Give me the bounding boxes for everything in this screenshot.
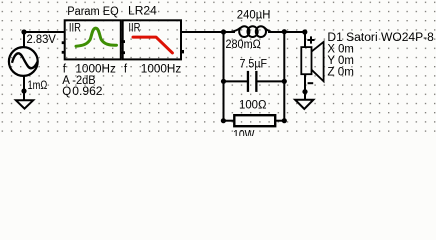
speaker minus sign [308, 82, 314, 84]
svg-text:Z 0m: Z 0m [327, 67, 354, 79]
wire: node D to speaker top [284, 31, 305, 33]
wire: source top to Param EQ input [24, 31, 65, 33]
node H junction dot [221, 118, 226, 123]
svg-text:2.83V: 2.83V [27, 34, 57, 46]
speaker D1 magnet rect [301, 47, 311, 74]
svg-text:100Ω: 100Ω [239, 99, 267, 111]
svg-text:1mΩ: 1mΩ [28, 80, 48, 92]
ground (source) [16, 100, 33, 108]
resistor R1 right wire [275, 120, 284, 122]
node A junction dot at source top [21, 29, 26, 34]
wire: LR24 output to node C [181, 31, 224, 33]
capacitor C1 right wire [258, 80, 285, 82]
svg-text:IIR: IIR [69, 23, 81, 35]
svg-text:7.5µF: 7.5µF [240, 59, 268, 71]
svg-text:1000Hz: 1000Hz [141, 64, 182, 76]
wire: source bottom to ground [23, 76, 25, 100]
grid dots [0, 0, 436, 136]
svg-text:1000Hz: 1000Hz [75, 64, 116, 76]
svg-text:240µH: 240µH [237, 9, 271, 21]
corner junction dot at speaker top [302, 29, 307, 34]
wire: junction down to source circle [23, 31, 25, 47]
resistor R1 body [234, 115, 275, 126]
svg-text:Param EQ: Param EQ [67, 6, 118, 18]
node C junction dot [221, 29, 226, 34]
Param EQ green bell curve [76, 28, 117, 46]
resistor R1 left wire [224, 120, 235, 122]
node F junction dot [282, 79, 287, 84]
block U1 Param EQ [65, 20, 121, 59]
speaker plus sign [307, 36, 314, 43]
svg-text:LR24: LR24 [128, 6, 157, 18]
node G junction dot [221, 79, 226, 84]
right rail node D down to resistor [283, 32, 285, 121]
Param EQ left pin nubs [62, 41, 65, 44]
LR24 red lowpass curve [133, 37, 172, 53]
svg-text:280mΩ: 280mΩ [226, 39, 262, 51]
svg-text:Y 0m: Y 0m [327, 55, 354, 67]
voltage source sine wave [12, 53, 37, 68]
svg-text:0.962: 0.962 [72, 86, 102, 98]
inductor L1 coil [231, 26, 271, 37]
speaker D1 cone [312, 42, 324, 81]
capacitor C1 plates [247, 71, 249, 92]
voltage source V1 circle [9, 47, 38, 76]
svg-text:10W: 10W [233, 130, 254, 136]
node E junction dot [302, 89, 307, 94]
node D junction dot [282, 29, 287, 34]
svg-text:X 0m: X 0m [327, 43, 354, 55]
wire: speaker bottom to ground [304, 74, 306, 99]
node I junction dot [282, 118, 287, 123]
svg-text:IIR: IIR [128, 22, 140, 34]
svg-text:D1 Satori WO24P-8: D1 Satori WO24P-8 [327, 32, 434, 44]
LR24 right pin nub [181, 50, 184, 53]
node B junction dot at source bottom [21, 88, 26, 93]
wire: down into speaker [304, 32, 306, 48]
inductor L1 wires [224, 31, 236, 33]
svg-text:Q: Q [62, 86, 71, 98]
capacitor C1 left wire [224, 80, 248, 82]
inter-block pin nubs [122, 40, 125, 43]
block U2 LR24 [123, 20, 181, 59]
left rail wire node C down to resistor [223, 32, 225, 121]
ground (speaker) [295, 100, 313, 109]
